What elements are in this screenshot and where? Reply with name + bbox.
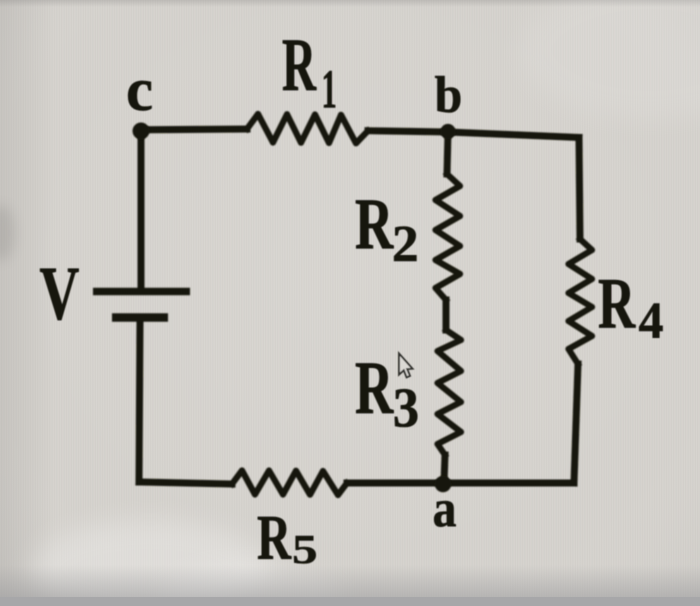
background bottom dark strip [0,597,700,606]
background bottom-center light blob [160,565,340,606]
background top dark band [0,0,700,7]
svg-text:4: 4 [639,292,664,349]
svg-text:c: c [126,56,153,124]
resistor R2 [436,174,461,300]
svg-text:R: R [598,263,636,344]
svg-text:3: 3 [393,377,419,439]
svg-text:a: a [433,479,457,538]
wire right upper from corner down to R4 [579,138,580,240]
node b junction dot [440,124,455,139]
resistor R1 [247,114,368,143]
background top-right light area [520,0,700,120]
svg-text:V: V [39,253,79,337]
wire left upper from battery long plate up to node c [138,131,145,288]
svg-text:b: b [435,66,463,124]
svg-text:1: 1 [322,58,337,120]
svg-text:R: R [355,347,394,430]
resistor R3 [438,330,462,455]
svg-text:2: 2 [392,216,419,273]
svg-text:R: R [257,503,292,574]
wire right lower from R4 to bottom-right corner [574,364,578,483]
wire top-right from R1 through node b to top-right corner [368,131,579,138]
node c junction dot [133,123,150,140]
wire middle between R2 and R3 [443,300,450,330]
mouse cursor [399,354,413,378]
background bottom-left light blob [30,520,270,606]
resistor R4 [569,239,593,364]
node a junction dot [435,476,452,493]
wire middle from R3 down to node a [444,455,445,483]
background bottom shade gradient [0,565,700,598]
wire left lower from corner up to battery short plate [139,321,140,482]
wire top-left from node c to R1 [141,126,247,134]
svg-text:5: 5 [292,526,318,572]
background left smudge [0,205,15,261]
battery V long plate [93,288,190,296]
background left dark edge [0,0,55,606]
battery V short plate [112,313,168,322]
wire bottom-left from R5 to bottom-left corner [139,482,232,484]
wire middle from node b down to R2 [447,132,448,174]
resistor R5 [232,471,347,496]
svg-text:R: R [282,23,317,107]
svg-text:R: R [355,183,394,264]
wire bottom-right from corner through node a to R5 [347,480,574,487]
